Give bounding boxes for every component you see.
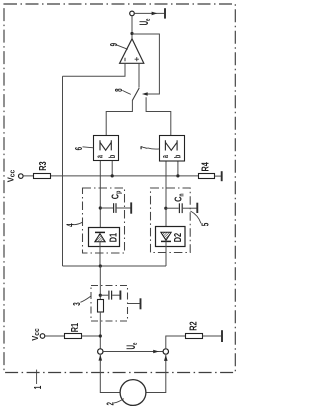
terminal bar Cn	[196, 203, 198, 213]
svg-text:5: 5	[199, 223, 211, 227]
svg-text:b: b	[172, 154, 183, 158]
wire block 7 pin a down through box 5	[165, 162, 167, 233]
resistor R4	[199, 174, 215, 179]
arrow Ue bottom	[153, 350, 159, 354]
capacitor Cn wire right	[183, 207, 197, 209]
label 6 leader	[83, 147, 94, 148]
svg-text:Vcc: Vcc	[31, 328, 41, 341]
resistor R1	[65, 334, 82, 339]
block 6 box	[94, 136, 119, 161]
junction node Cn	[164, 207, 167, 210]
node Ue top terminal circle	[130, 11, 135, 16]
svg-text:Cn: Cn	[172, 193, 186, 202]
dashed box 3	[91, 286, 128, 322]
dashed box 4	[83, 188, 125, 253]
svg-text:7: 7	[138, 146, 150, 150]
svg-text:9: 9	[107, 43, 119, 47]
op-amp minus tick	[124, 58, 126, 62]
arrow up into right circle	[164, 355, 168, 361]
label 3 leader	[80, 296, 91, 302]
svg-text:Cp: Cp	[109, 191, 123, 200]
svg-text:R1: R1	[69, 323, 81, 332]
svg-text:D2: D2	[172, 233, 184, 242]
wire block 6 pin a down through box 4	[99, 161, 101, 233]
capacitor Cp wire	[100, 207, 113, 209]
svg-text:R4: R4	[199, 162, 211, 171]
svg-text:Vcc: Vcc	[6, 170, 16, 183]
terminal bar after R4	[221, 171, 223, 181]
wire D2 bottom	[165, 241, 167, 266]
label 4 leader	[73, 222, 83, 224]
svg-text:1: 1	[31, 386, 43, 390]
svg-text:D1: D1	[107, 233, 119, 242]
resistor R2	[186, 334, 203, 339]
node Vcc left terminal	[19, 174, 24, 179]
diode D2 box	[156, 227, 186, 247]
junction summing node	[99, 264, 102, 267]
wire block 3 to ground bar	[128, 303, 140, 305]
frame border 1 (dash-dot enclosure)	[4, 4, 235, 373]
block 7 waveform symbol	[165, 140, 177, 150]
op-amp plus sign	[135, 57, 139, 61]
wire D1 bottom	[99, 242, 101, 266]
label 2 leader	[114, 399, 124, 403]
terminal bar Ue top	[164, 8, 166, 18]
terminal bar after R2	[221, 330, 223, 342]
wire block 7 pin b down	[177, 162, 179, 176]
label 1 leader	[36, 370, 38, 384]
label 8 leader	[122, 90, 131, 94]
svg-text:a: a	[159, 154, 170, 158]
wire main horizontal rail	[23, 175, 198, 177]
wire left circle to oscillator	[100, 355, 120, 393]
svg-text:Ue: Ue	[125, 342, 139, 349]
wire from Ue node down to output node	[131, 16, 133, 39]
svg-text:3: 3	[70, 302, 82, 306]
svg-text:a: a	[94, 154, 105, 158]
wire switch left throw to block 6	[106, 100, 132, 135]
terminal bar right of block 3	[140, 298, 142, 309]
capacitor Cp plates	[113, 203, 115, 213]
resistor R3	[34, 174, 51, 179]
wire right circle up to R2	[166, 336, 185, 349]
svg-text:Ue: Ue	[138, 18, 152, 25]
wire inverting input	[63, 63, 126, 76]
wire Vcc to R1	[45, 335, 65, 337]
arrow feedback pointing left at switch	[142, 92, 148, 96]
block 6 waveform symbol	[100, 140, 111, 150]
capacitor Cp wire right	[117, 207, 131, 209]
terminal bar Cp	[130, 202, 132, 213]
block 7 box	[160, 136, 185, 162]
wire summing horizontal	[63, 265, 167, 267]
junction output node	[130, 32, 133, 35]
arrow up into left circle	[99, 355, 103, 361]
diode D2 triangle	[161, 232, 171, 240]
junction R1 node	[99, 334, 102, 337]
wire switch right throw to block 7	[146, 97, 171, 135]
junction pin b box 7	[176, 174, 179, 177]
capacitor C3 wire right	[112, 294, 119, 296]
wire Ue bottom horizontal	[103, 351, 163, 353]
svg-text:8: 8	[112, 88, 124, 92]
node left output circle	[98, 349, 103, 354]
diode D2 cathode bar	[161, 240, 171, 242]
wire node down to block 3	[99, 266, 101, 300]
svg-text:2: 2	[104, 402, 116, 406]
label 7 leader	[148, 148, 160, 149]
diode D1 triangle	[95, 234, 105, 242]
label 9 leader	[116, 45, 128, 50]
capacitor C3 wire	[100, 294, 108, 296]
wire resistor bottom down	[99, 312, 101, 349]
capacitor Cn plates	[178, 203, 180, 213]
wire R2 to bar	[203, 335, 222, 337]
svg-text:4: 4	[64, 223, 76, 227]
resistor in block 3	[98, 300, 104, 313]
wire feedback top horizontal	[132, 34, 159, 94]
svg-text:R2: R2	[187, 321, 199, 330]
node Vcc bottom terminal	[40, 334, 45, 339]
op-amp 9 triangle	[120, 39, 144, 64]
wire Ue top horizontal	[134, 12, 164, 14]
capacitor Cn wire	[166, 207, 179, 209]
switch 8 arm	[132, 88, 139, 100]
wire R1 to node	[81, 335, 100, 337]
wire R4 to bar	[215, 175, 221, 177]
wire right circle to oscillator	[146, 355, 166, 393]
wire block 6 pin b down	[111, 161, 113, 176]
junction node in box 3	[99, 294, 102, 297]
wire non-inverting input	[138, 63, 140, 87]
node right output circle	[163, 349, 168, 354]
capacitor C3 plates	[108, 291, 110, 300]
diode D1 cathode bar	[95, 231, 105, 233]
diode D1 box	[89, 228, 120, 247]
arrow Ue top	[152, 12, 158, 16]
junction node Cp	[99, 206, 102, 209]
dashed box 5	[151, 188, 191, 253]
svg-text:b: b	[106, 154, 117, 158]
oscillator circle 2	[120, 380, 146, 406]
junction pin b box 6	[111, 174, 114, 177]
label 5 leader	[190, 211, 201, 223]
svg-text:R3: R3	[37, 161, 49, 170]
terminal bar C3	[119, 291, 121, 300]
wire left vertical long	[62, 76, 64, 266]
svg-text:6: 6	[72, 147, 84, 151]
